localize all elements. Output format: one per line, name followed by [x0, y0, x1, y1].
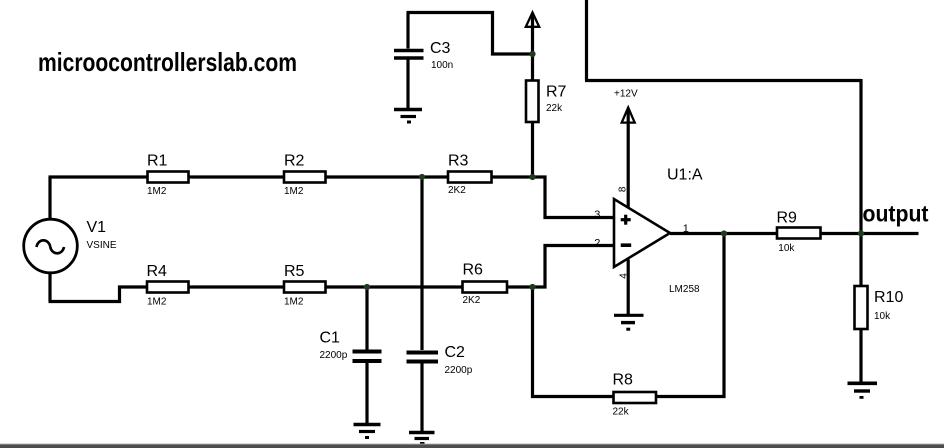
wire node D step to op-amp pin 2 — [533, 246, 615, 288]
resistor R2 body — [284, 172, 326, 183]
node D junction R6/R8/pin2 — [529, 284, 535, 290]
svg-text:U1:A: U1:A — [667, 167, 703, 184]
wire C3 top lead — [406, 13, 409, 49]
capacitor C3 plates — [394, 51, 424, 59]
wire R10 bottom to ground — [859, 329, 862, 382]
wire power arrow stem — [531, 13, 534, 54]
svg-text:4: 4 — [618, 273, 629, 279]
svg-text:R1: R1 — [147, 153, 168, 170]
svg-text:3: 3 — [594, 209, 600, 221]
wire R5 to R6 — [326, 285, 463, 288]
wire top net down to output node — [859, 79, 862, 234]
ground under C2 — [409, 433, 435, 444]
power arrow head above R7 — [526, 13, 539, 27]
svg-text:1M2: 1M2 — [147, 297, 167, 308]
node E power node R7/C3 — [529, 51, 535, 57]
svg-text:R5: R5 — [284, 263, 305, 280]
svg-text:R6: R6 — [463, 262, 484, 279]
svg-text:output: output — [863, 201, 929, 227]
wire op-amp pin 4 to ground — [627, 260, 630, 315]
svg-text:10k: 10k — [874, 311, 891, 322]
wire +12V arrow stem to pin 8 — [627, 110, 630, 208]
resistor R4 body — [147, 282, 189, 293]
capacitor C1 plates — [353, 352, 382, 362]
wire C1 bottom lead to ground — [365, 363, 368, 424]
svg-text:VSINE: VSINE — [87, 240, 117, 251]
node F op-amp output/feedback — [721, 230, 727, 236]
svg-text:22k: 22k — [546, 103, 563, 114]
resistor R10 body — [855, 286, 868, 329]
node G output/R10 — [858, 230, 864, 236]
wire C3 bottom lead to ground — [406, 60, 409, 109]
voltage source V1 circle — [24, 219, 78, 273]
resistor R6 body — [463, 282, 508, 293]
wire output node down to R10 — [859, 234, 862, 287]
svg-text:R7: R7 — [546, 84, 567, 101]
svg-text:C1: C1 — [320, 329, 341, 346]
wire node A to C2 — [420, 177, 423, 350]
svg-text:100n: 100n — [431, 60, 453, 71]
wire R7 top to power node — [531, 54, 534, 81]
svg-text:8: 8 — [618, 186, 629, 192]
svg-text:2200p: 2200p — [445, 365, 473, 376]
op-amp minus symbol — [621, 243, 632, 247]
wire node B step to op-amp pin 3 — [533, 177, 615, 218]
svg-text:2200p: 2200p — [320, 350, 348, 361]
node C junction R5/C1 — [364, 284, 370, 290]
wire C3 to power node — [407, 13, 533, 55]
wire op-amp output pin 1 — [670, 232, 777, 235]
+12V arrow head — [622, 108, 635, 123]
resistor R7 body — [526, 81, 539, 123]
ground under C1 — [354, 425, 381, 438]
resistor R5 body — [284, 282, 326, 293]
svg-text:10k: 10k — [778, 243, 795, 254]
svg-text:R10: R10 — [874, 289, 903, 306]
wire top row V1 to R1 — [49, 175, 148, 178]
svg-text:C2: C2 — [445, 344, 466, 361]
wire R2 to R3 — [326, 175, 449, 178]
resistor R3 body — [448, 172, 492, 183]
svg-text:LM258: LM258 — [669, 284, 700, 295]
wire R1 to R2 — [189, 175, 285, 178]
svg-text:R4: R4 — [147, 263, 168, 280]
svg-text:R3: R3 — [448, 153, 469, 170]
wire V1 bottom lead — [48, 274, 51, 302]
svg-text:+12V: +12V — [614, 89, 638, 100]
node B junction R3/R7 — [529, 174, 535, 180]
svg-text:1M2: 1M2 — [284, 186, 304, 197]
resistor R1 body — [148, 172, 189, 183]
svg-text:2K2: 2K2 — [463, 295, 481, 306]
wire C2 bottom lead to ground — [420, 363, 423, 432]
op-amp U1 triangle — [614, 199, 670, 267]
ground under C3 — [394, 110, 422, 123]
resistor R9 body — [777, 228, 821, 239]
wire R8 to output node — [656, 234, 724, 397]
svg-text:C3: C3 — [430, 40, 451, 57]
capacitor C2 plates — [407, 353, 439, 362]
wire R9 to open output end — [821, 232, 919, 235]
svg-text:1M2: 1M2 — [284, 297, 304, 308]
node A junction R2/R3/C2 — [419, 174, 425, 180]
svg-text:R9: R9 — [777, 210, 798, 227]
svg-text:microocontrollerslab.com: microocontrollerslab.com — [38, 47, 297, 77]
svg-text:R2: R2 — [284, 153, 305, 170]
V1 sine symbol — [37, 240, 65, 253]
svg-text:1: 1 — [683, 223, 689, 235]
op-amp plus symbol — [621, 215, 631, 225]
wire R7 bottom to node B — [531, 122, 534, 179]
wire top net horizontal — [585, 79, 861, 82]
wire bottom row V1 step to R4 — [49, 287, 148, 302]
resistor R8 body — [614, 392, 657, 403]
wire node C to C1 — [365, 287, 368, 350]
bottom border bar — [0, 444, 944, 445]
wire V1 top lead — [48, 177, 51, 218]
wire feedback node D down to R8 — [533, 287, 614, 397]
wire R6 to node D — [507, 285, 533, 288]
svg-text:2K2: 2K2 — [448, 185, 466, 196]
ground under op-amp pin 4 — [614, 315, 644, 329]
ground under R10 — [848, 383, 878, 397]
svg-text:V1: V1 — [87, 219, 107, 236]
svg-text:R8: R8 — [613, 372, 634, 389]
svg-text:1M2: 1M2 — [147, 186, 167, 197]
svg-text:2: 2 — [594, 238, 600, 250]
wire R3 to node B — [492, 175, 533, 178]
svg-text:22k: 22k — [613, 406, 630, 417]
wire top cropped net vertical — [585, 0, 588, 81]
wire R4 to R5 — [189, 285, 285, 288]
